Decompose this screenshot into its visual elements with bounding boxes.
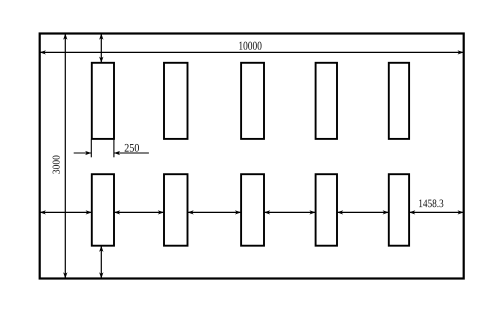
slot row 1 column 3 — [241, 63, 264, 139]
dimension line 250 (slot width) — [74, 151, 149, 155]
slot row 1 column 1 — [92, 63, 114, 139]
slot row 1 column 2 — [164, 63, 188, 139]
pitch dimension line segment 2 (column 1 to column 2) — [114, 210, 164, 214]
dimension arrows top margin (outer top edge to slot top) — [99, 34, 103, 63]
pitch dimension line segment 3 (column 2 to column 3) — [188, 210, 242, 214]
dimension text 3000 (rotated 90) — [53, 155, 60, 173]
dimension line 3000 (overall height) — [63, 34, 67, 279]
slot row 1 column 5 — [389, 63, 409, 139]
slot row 1 column 4 — [316, 63, 337, 139]
slot row 2 column 1 — [92, 174, 114, 246]
slot row 2 column 2 — [164, 174, 188, 246]
dimension text 10000 — [239, 42, 261, 50]
pitch dimension line segment 4 (column 3 to column 4) — [264, 210, 316, 214]
pitch dimension line segment 1 (left edge to column 1) — [40, 210, 92, 214]
slot row 2 column 3 — [241, 174, 264, 246]
slot row 2 column 5 — [389, 174, 409, 246]
dimension line 10000 (overall width) — [40, 50, 464, 54]
dimension text 1458.3 — [419, 200, 443, 208]
slot row 2 column 4 — [316, 174, 337, 246]
pitch dimension line segment 5 (column 4 to column 5) — [337, 210, 389, 214]
extension lines for 250 dimension — [91, 140, 114, 158]
dimension text 250 — [125, 144, 139, 152]
outer boundary rectangle 10000 x 3000 — [40, 34, 464, 279]
dimension arrows bottom margin (slot bottom to outer bottom edge) — [99, 246, 103, 279]
pitch dimension line segment 6 (column 5 to right edge) — [409, 210, 464, 214]
